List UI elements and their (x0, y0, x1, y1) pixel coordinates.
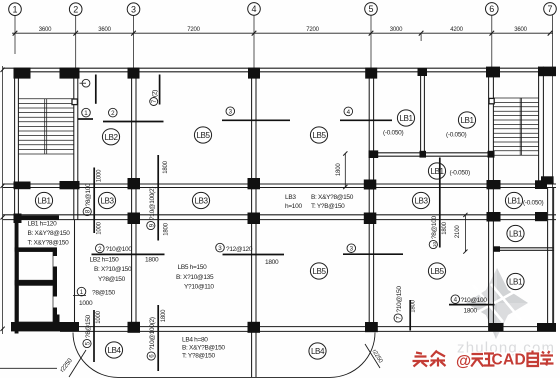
svg-text:T: Y?8@150: T: Y?8@150 (182, 353, 215, 360)
svg-text:2100: 2100 (455, 225, 461, 238)
svg-text:5: 5 (85, 341, 92, 345)
svg-text:8: 8 (85, 209, 92, 213)
svg-text:?8@100: ?8@100 (431, 215, 438, 239)
svg-text:Y?8@150: Y?8@150 (98, 276, 126, 283)
svg-text:LB5 h=150: LB5 h=150 (178, 264, 208, 271)
svg-text:LB5: LB5 (313, 130, 327, 140)
svg-text:LB2 h=150: LB2 h=150 (90, 257, 120, 264)
svg-text:7: 7 (396, 316, 403, 320)
svg-text:Y?10@110: Y?10@110 (184, 284, 214, 291)
svg-text:?8@150: ?8@150 (92, 290, 116, 297)
svg-text:LB4 h=80: LB4 h=80 (182, 337, 208, 344)
svg-text:?10@100(2): ?10@100(2) (149, 187, 156, 220)
svg-text:LB1: LB1 (509, 277, 523, 287)
svg-text:B: X&Y?8@150: B: X&Y?8@150 (28, 230, 71, 237)
svg-text:7200: 7200 (306, 27, 319, 33)
svg-text:1800: 1800 (442, 221, 448, 234)
svg-text:1800: 1800 (163, 222, 169, 235)
svg-text:(2): (2) (152, 90, 159, 97)
svg-text:1800: 1800 (163, 160, 169, 173)
svg-text:?10@150: ?10@150 (396, 286, 403, 313)
svg-text:LB5: LB5 (197, 130, 211, 140)
svg-text:?10@100: ?10@100 (106, 246, 133, 253)
svg-text:1800: 1800 (336, 163, 342, 176)
svg-text:B: X?10@150: B: X?10@150 (94, 266, 132, 273)
svg-text:6: 6 (489, 4, 494, 14)
svg-text:LB5: LB5 (431, 266, 445, 276)
svg-text:LB4: LB4 (311, 346, 325, 356)
svg-text:3: 3 (131, 4, 136, 14)
svg-text:4: 4 (347, 109, 351, 116)
svg-text:1800: 1800 (145, 257, 159, 264)
svg-text:1800: 1800 (464, 308, 478, 315)
svg-text:1800: 1800 (265, 259, 279, 266)
svg-text:?10@100: ?10@100 (461, 297, 488, 304)
svg-text:(-0.050): (-0.050) (450, 170, 470, 177)
svg-text:B: X&Y?B@150: B: X&Y?B@150 (182, 345, 225, 352)
svg-text:1: 1 (12, 4, 17, 14)
svg-text:1800: 1800 (161, 309, 167, 322)
svg-text:LB1: LB1 (431, 166, 445, 176)
svg-text:7: 7 (547, 4, 552, 14)
svg-text:LB1: LB1 (461, 115, 475, 125)
svg-text:CAD: CAD (492, 352, 526, 369)
svg-text:?8@100: ?8@100 (85, 183, 92, 207)
svg-text:LB3: LB3 (415, 196, 429, 206)
svg-text:3: 3 (218, 245, 222, 252)
svg-text:2: 2 (111, 110, 115, 117)
svg-text:LB2: LB2 (105, 132, 119, 142)
svg-text:3000: 3000 (390, 27, 403, 33)
svg-text:LB5: LB5 (313, 266, 327, 276)
svg-text:LB1: LB1 (509, 229, 523, 239)
svg-text:1: 1 (84, 110, 88, 117)
svg-text:T: X&Y?8@150: T: X&Y?8@150 (28, 240, 70, 247)
svg-text:10: 10 (432, 242, 438, 248)
svg-text:3: 3 (229, 109, 233, 116)
svg-text:@: @ (456, 353, 471, 370)
svg-text:3: 3 (350, 246, 354, 253)
svg-text:LB1 h=120: LB1 h=120 (28, 221, 58, 228)
svg-text:1000: 1000 (96, 310, 102, 323)
svg-text:(-0.050): (-0.050) (383, 130, 403, 137)
svg-text:4200: 4200 (450, 27, 463, 33)
svg-text:h=100: h=100 (285, 203, 302, 210)
svg-text:1000: 1000 (97, 221, 103, 234)
svg-text:LB3: LB3 (195, 196, 209, 206)
svg-text:7: 7 (151, 99, 158, 103)
svg-text:6: 6 (149, 354, 156, 358)
svg-text:1: 1 (80, 289, 84, 296)
svg-text:?8@150: ?8@150 (85, 314, 92, 338)
svg-text:3600: 3600 (514, 27, 527, 33)
svg-text:9: 9 (148, 223, 155, 227)
svg-text:4: 4 (251, 4, 256, 14)
svg-text:?12@120: ?12@120 (226, 246, 253, 253)
svg-text:LB4: LB4 (108, 345, 122, 355)
svg-text:LB3: LB3 (101, 196, 115, 206)
svg-text:1800: 1800 (411, 299, 417, 312)
svg-text:2: 2 (73, 4, 78, 14)
svg-text:(-0.050): (-0.050) (523, 200, 543, 207)
svg-text:?10@100(2): ?10@100(2) (149, 317, 156, 350)
svg-text:LB1: LB1 (400, 113, 414, 123)
svg-text:T: Y?B@150: T: Y?B@150 (311, 203, 345, 210)
svg-text:1000: 1000 (97, 169, 103, 182)
svg-text:LB1: LB1 (38, 196, 52, 206)
svg-text:7200: 7200 (187, 27, 200, 33)
svg-text:1000: 1000 (79, 300, 93, 307)
svg-text:B: X&Y?8@150: B: X&Y?8@150 (311, 194, 354, 201)
svg-text:B: X?10@135: B: X?10@135 (176, 274, 214, 281)
svg-text:LB3: LB3 (285, 194, 296, 201)
svg-text:4: 4 (454, 297, 458, 304)
svg-text:3600: 3600 (98, 27, 111, 33)
svg-text:5: 5 (368, 4, 373, 14)
svg-text:(-0.050): (-0.050) (446, 132, 466, 139)
svg-text:3600: 3600 (39, 27, 52, 33)
svg-text:LB1: LB1 (508, 196, 522, 206)
svg-text:2: 2 (98, 246, 102, 253)
